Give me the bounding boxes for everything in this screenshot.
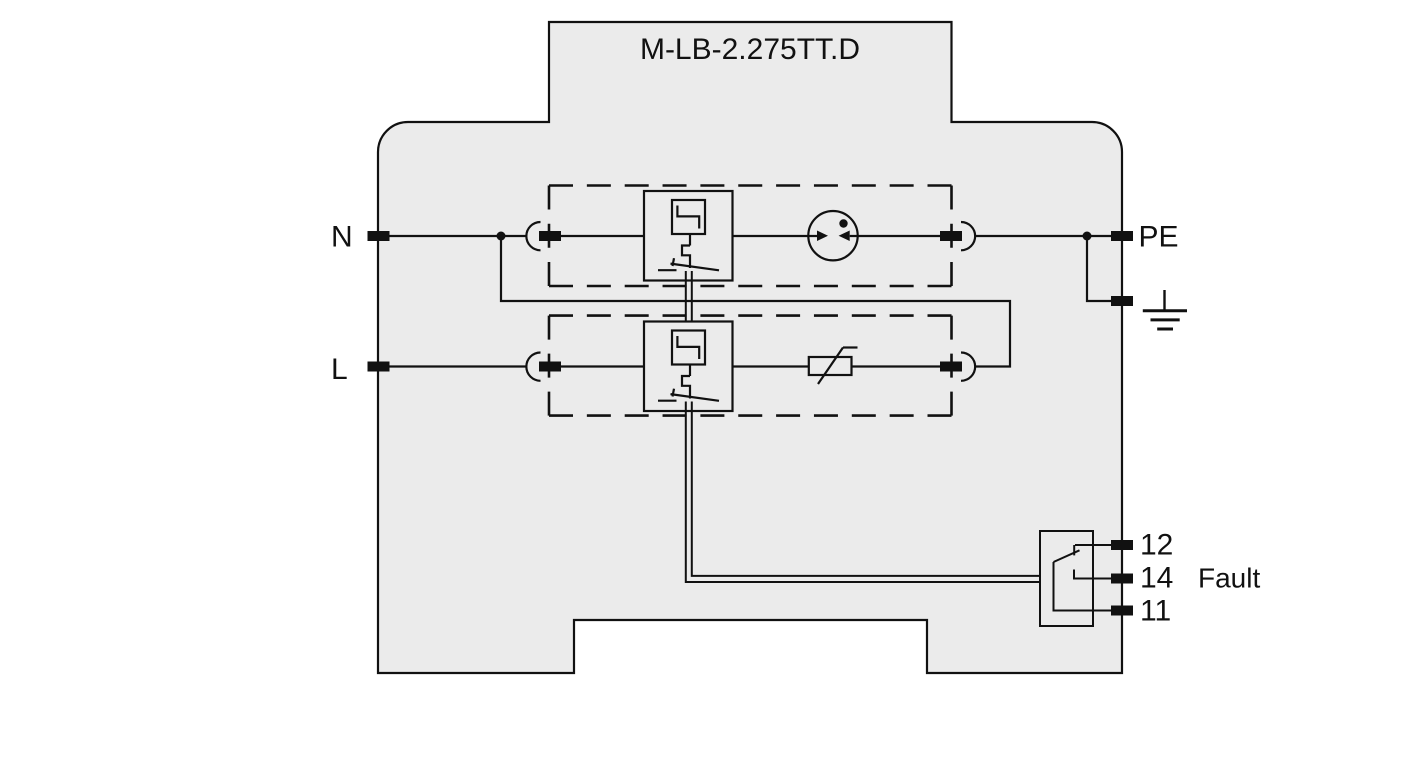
terminal earth [1111,296,1133,306]
U1 tick [673,258,675,266]
svg-text:N: N [331,221,353,254]
U2 tick [673,389,675,397]
wire disconnector 1 to GDT [733,235,818,237]
wire N terminal to junction [390,235,502,237]
terminal N stage output [940,231,962,241]
connector arc L input [526,353,540,381]
K1 contact 12 tick [1073,545,1075,555]
K1 common pole 11 [1054,562,1113,611]
U2 surge waveform box [672,331,705,365]
U1 crank [682,246,690,269]
U1 fixed contact [658,269,677,271]
disconnector U1 box [644,191,733,281]
U2 waveform [677,336,699,359]
node N junction [497,232,506,241]
wire varistor to output terminal [852,365,941,367]
gas discharge tube F1 [808,211,857,260]
disconnector U2 box [644,322,733,412]
U2 blade [671,394,720,401]
K1 contact 14 wire [1074,570,1112,579]
wire L terminal to connector [390,365,527,367]
terminal PE [1111,231,1133,241]
connector arc N input [526,222,540,250]
terminal L stage input [539,362,561,372]
F1 left electrode [817,231,828,242]
fault contact K1 box [1040,531,1093,626]
svg-text:11: 11 [1140,595,1171,628]
terminal 11 [1111,606,1133,616]
mechanical link between disconnectors [686,271,692,322]
terminal N [368,231,390,241]
terminal L [368,362,390,372]
module body outline [378,22,1122,673]
K1 switch arm [1054,550,1080,562]
RV1 tail [843,346,858,348]
wire PE junction down [1087,236,1111,301]
U2 fixed contact [658,400,677,402]
F1 right electrode [839,231,850,242]
svg-text:Fault: Fault [1198,563,1260,594]
svg-text:M-LB-2.275TT.D: M-LB-2.275TT.D [640,33,860,66]
svg-text:PE: PE [1139,221,1179,254]
U1 surge waveform box [672,200,705,234]
U2 crank [682,376,690,399]
dashed box stage 2 (L row) [549,316,952,416]
K1 contact 12 wire [1075,544,1112,546]
terminal N stage input [539,231,561,241]
wire disconnector 2 to varistor [733,365,809,367]
connector arc N output [961,222,975,250]
ground symbol [1143,290,1187,329]
terminal L stage output [940,362,962,372]
node PE junction [1083,232,1092,241]
wire junction to connector [501,235,527,237]
svg-text:14: 14 [1140,562,1173,595]
varistor RV1 [809,357,852,375]
connector arc L output [961,353,975,381]
svg-text:L: L [331,353,348,386]
U1 waveform [677,206,699,229]
RV1 diagonal [818,348,843,385]
U1 blade [671,264,720,271]
svg-text:12: 12 [1140,529,1173,562]
U1 stem [689,234,691,246]
wire L output up and across to N junction [501,236,1010,367]
mechanical link to fault contact [686,402,1040,583]
dashed box stage 1 (N row) [549,186,952,287]
F1 gas dot [839,219,847,227]
wire to disconnector 1 [561,235,644,237]
wire GDT to output terminal [850,235,940,237]
terminal 14 [1111,574,1133,584]
wire to PE junction [975,235,1112,237]
U2 stem [689,365,691,377]
terminal 12 [1111,540,1133,550]
wire to disconnector 2 [561,365,644,367]
